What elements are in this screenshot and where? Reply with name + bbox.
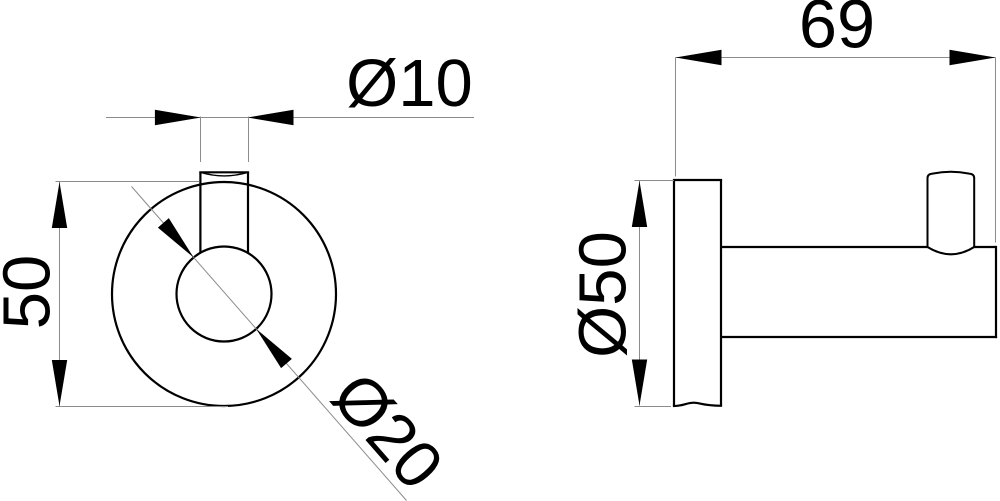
front view: post circle Ø20 — [177, 247, 272, 342]
dimension 69: left extension line — [675, 58, 677, 177]
dimension Ø50: top extension line — [635, 180, 675, 182]
front view: arm stem top edge — [199, 171, 249, 173]
dimension Ø50: top arrow — [632, 181, 647, 227]
side view: wall plate top edge — [673, 179, 722, 181]
dimension Ø20: lower arrow — [256, 329, 292, 368]
front view: flange circle Ø50 — [112, 182, 336, 406]
side view: wall plate right edge — [720, 180, 722, 406]
dimension Ø50: bottom extension line — [635, 406, 672, 408]
dimension 50: top extension line — [56, 181, 200, 183]
dimension 50: bottom arrow — [52, 360, 67, 406]
dimension Ø10: dimension line — [106, 117, 474, 119]
dimension 69: right arrow — [950, 50, 996, 65]
dimension 50: dimension line — [59, 182, 61, 406]
dimension 69: left arrow — [676, 50, 722, 65]
front view: arm stem left edge — [199, 172, 201, 252]
dimension Ø10: left extension line — [200, 117, 202, 163]
svg-text:50: 50 — [0, 255, 65, 330]
svg-text:69: 69 — [799, 0, 875, 62]
svg-text:Ø10: Ø10 — [346, 46, 473, 121]
front view: arm stem top rim arc — [200, 172, 248, 176]
side view: wall plate bottom break edge — [673, 403, 722, 406]
dimension Ø50: bottom arrow — [632, 360, 647, 406]
dimension Ø50: dimension line — [639, 181, 641, 406]
dimension Ø20: upper arrow — [158, 218, 194, 257]
dimension 50: bottom extension line — [56, 406, 229, 408]
dimension Ø10: left arrow — [155, 110, 201, 125]
svg-text:Ø50: Ø50 — [566, 231, 641, 358]
side view: arm bottom edge — [721, 336, 997, 338]
dimension 69: right extension line — [995, 58, 997, 243]
side view: arm top edge right segment — [974, 246, 996, 248]
side view: wall plate left edge — [673, 180, 675, 406]
side view: arm right end edge — [995, 246, 997, 338]
dimension Ø10: right extension line — [248, 117, 250, 163]
dimension Ø10: right arrow — [248, 110, 294, 125]
side view: post bottom end arc — [928, 247, 975, 254]
front view: arm stem right edge — [247, 172, 249, 253]
dimension 50: top arrow — [52, 182, 67, 228]
side view: post outline — [928, 172, 975, 247]
side view: arm top edge left segment — [721, 246, 928, 248]
dimension 69: dimension line — [676, 57, 996, 59]
dimension Ø20: leader line — [132, 187, 407, 501]
